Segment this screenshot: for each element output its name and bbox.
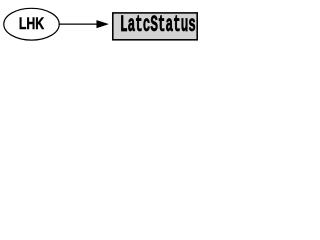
wire LHK to LatcStatus (59, 23, 98, 25)
node LHK (ellipse) (4, 8, 59, 40)
node LatcStatus (box) (113, 13, 197, 40)
arrowhead (97, 20, 109, 28)
svg-text:LHK: LHK (19, 16, 45, 34)
svg-text:LatcStatus: LatcStatus (120, 13, 196, 39)
